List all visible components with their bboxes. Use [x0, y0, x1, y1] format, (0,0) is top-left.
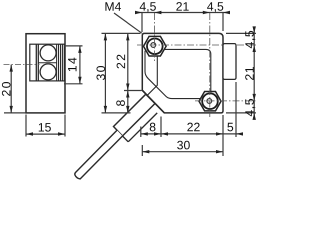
dimension 14: dimension line [79, 46, 81, 84]
dimension 5 bottom: arrow [236, 132, 243, 135]
front view: left strip divider double line [35, 44, 37, 81]
side view: housing outline with chamfered cable corner [142, 33, 223, 113]
dimension 20: dimension line [10, 65, 12, 113]
dimension 22 left: text [117, 55, 126, 69]
mounting hole M4 bottom-right: vertical centerline [209, 13, 211, 117]
front view: optics window inner box [30, 44, 65, 81]
top dimension chain: extension line right (body right edge) [222, 13, 224, 31]
right dimension chain: bottom extension line [226, 112, 256, 114]
dimension 22 left: dimension line [127, 33, 129, 90]
top dimension chain: dimension line [135, 12, 230, 14]
bottom dimension chain row1: dimension line [141, 133, 243, 135]
side view: cable gland rear flange edge [128, 113, 157, 142]
dimension 21 top text [176, 2, 188, 11]
dimension 22 left: arrows [126, 33, 129, 40]
dimension 21 right text [245, 67, 254, 80]
right dimension chain: dimension line [253, 27, 255, 120]
dimension 30 left: text [96, 66, 105, 80]
dimension 14: text [68, 58, 76, 72]
label M4 leader line [114, 13, 142, 33]
bottom dimension chain row2: extension line left [141, 145, 143, 156]
dimension 30 left: arrows [104, 33, 107, 40]
dimension 4,5 right-top text [245, 31, 255, 48]
dimension 14: extension lines [64, 45, 83, 47]
front view: hatch lines right strip [58, 44, 60, 81]
dimension 15: text [39, 123, 51, 132]
dimension 15: arrows [26, 132, 33, 135]
left dimension chain: chamfer extension line [124, 90, 142, 92]
dimension 20: bottom extension line [4, 112, 26, 114]
dimension 15: dimension line [26, 133, 65, 135]
dimension 30 bottom: text [177, 141, 190, 150]
dimension 8 left: dimension line [127, 91, 129, 113]
top dimension chain: extension line left (body corner) [141, 13, 143, 32]
mounting hole M4 bottom-right: thread circle [207, 99, 212, 104]
dimension 4,5 top-left text [140, 2, 156, 12]
mounting hole M4 top-left: vertical centerline [153, 13, 155, 62]
top dimension chain: arrows [135, 11, 142, 14]
front view: upper lens circle [40, 45, 56, 61]
label M4 text [105, 2, 121, 10]
side view: connector block [223, 44, 236, 80]
left dimension chain: bottom extension line [102, 112, 131, 114]
dimension 8 left: arrows [126, 91, 129, 98]
dimension 22 bottom: text [187, 123, 199, 132]
dimension 20: arrows [10, 65, 13, 72]
dimension 5 bottom: text [227, 123, 233, 132]
front view: lens mid divider [38, 62, 56, 64]
dimension 20: text [2, 82, 11, 96]
dimension 30 bottom: dimension line [142, 151, 223, 153]
dimension 30 left: dimension line [104, 33, 106, 113]
dimension 8 left: text [116, 100, 125, 106]
dimension 22 bottom: arrows [161, 132, 168, 135]
dimension 30 bottom: arrows [142, 150, 149, 153]
dimension 15: extension lines [25, 115, 27, 137]
mounting hole M4 top-left: horizontal centerline [137, 44, 256, 46]
dimension 8 bottom: arrows [141, 132, 148, 135]
right dimension chain: top extension line [226, 32, 256, 34]
mounting hole M4 top-left: hexagon boss [144, 36, 167, 56]
left dimension chain: top extension line [102, 32, 141, 34]
side view: cable gland [114, 94, 156, 136]
side view: cable channel inner edge [146, 56, 157, 96]
mounting hole M4 top-left: counterbore circle [147, 39, 163, 55]
side view: inner label panel contour [145, 49, 211, 98]
mounting hole M4 bottom-right: counterbore circle [202, 93, 218, 109]
dimension 14: arrows [78, 46, 81, 53]
side view: cable gland cap extension [123, 136, 129, 142]
dimension 4,5 right-bottom text [245, 99, 255, 116]
bottom dimension chain row1: extension lines [140, 127, 142, 138]
front view: outer housing rectangle [26, 34, 65, 113]
dimension 4,5 top-right text [207, 2, 223, 12]
side view: chamfer face line [142, 90, 164, 113]
side view: cable [75, 130, 123, 179]
right dimension chain: arrows [253, 26, 256, 33]
mounting hole M4 bottom-right: horizontal centerline [195, 100, 256, 102]
mounting hole M4 bottom-right: hexagon boss [199, 92, 221, 111]
mounting hole M4 top-left: thread circle [151, 43, 156, 48]
front view: lens frame right edge [56, 44, 58, 81]
dimension 8 bottom: text [150, 123, 156, 132]
front view: optical axis centerline [4, 64, 40, 66]
front view: lower lens circle [40, 64, 56, 80]
